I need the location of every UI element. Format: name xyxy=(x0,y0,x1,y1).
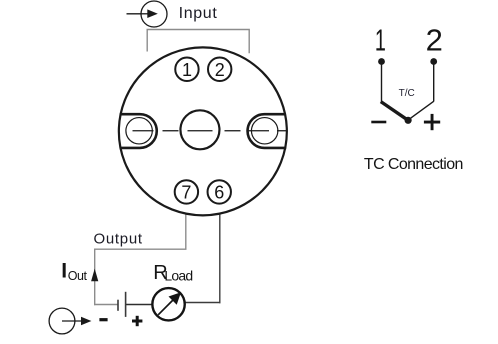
battery B1 tall plate (positive) xyxy=(125,292,127,317)
battery B1 short plate (negative) xyxy=(117,300,119,311)
svg-text:6: 6 xyxy=(214,182,224,202)
current flow arrowhead (IOut) xyxy=(91,269,98,282)
battery plus sign xyxy=(132,320,142,323)
TC wire left vertical xyxy=(381,62,383,103)
current source CS2 arrow xyxy=(62,320,84,322)
wire input bracket xyxy=(147,30,249,54)
svg-text:2: 2 xyxy=(426,23,443,58)
svg-text:Input: Input xyxy=(179,5,218,22)
left slot outline xyxy=(120,114,157,148)
svg-text:Output: Output xyxy=(94,230,143,247)
svg-text:Load: Load xyxy=(164,268,192,284)
wire meter to pin6 xyxy=(184,302,220,304)
meter needle xyxy=(158,299,174,315)
svg-text:Out: Out xyxy=(68,269,88,283)
svg-text:1: 1 xyxy=(182,60,192,80)
wire battery to meter xyxy=(126,304,153,306)
TC junction dot xyxy=(405,117,412,124)
current source CS1 arrowhead xyxy=(147,9,158,18)
current source arrow lead (input) xyxy=(127,13,151,15)
socket body circle xyxy=(119,47,287,215)
svg-text:I: I xyxy=(61,259,67,282)
svg-text:7: 7 xyxy=(181,182,191,202)
center keyway circle xyxy=(180,110,219,149)
svg-text:2: 2 xyxy=(215,60,225,80)
TC minus sign xyxy=(371,121,386,124)
TC wire right vertical xyxy=(433,62,435,102)
svg-text:TC Connection: TC Connection xyxy=(364,156,463,173)
pin 7 xyxy=(175,180,198,203)
TC thermocouple leg thick xyxy=(381,102,408,121)
left slot pin hole xyxy=(126,118,152,144)
wire battery left xyxy=(94,304,118,306)
current source CS1 (input) xyxy=(141,1,167,27)
svg-text:T/C: T/C xyxy=(399,88,415,99)
battery minus sign xyxy=(99,318,107,321)
current source CS2 (bottom left) xyxy=(49,308,75,334)
TC terminal dot 1 xyxy=(378,58,385,65)
right slot outline xyxy=(248,114,287,148)
TC terminal dot 2 xyxy=(430,58,437,65)
TC plus sign xyxy=(424,121,440,124)
TC thermocouple leg thin xyxy=(409,101,434,119)
wire output vertical down xyxy=(94,249,96,306)
pin 1 xyxy=(175,58,198,81)
wire pin7 to output corner xyxy=(185,202,187,249)
wire output horizontal xyxy=(94,248,187,250)
wire pin6 vertical xyxy=(219,202,221,303)
center keyway line xyxy=(188,130,213,132)
meter RLoad circle xyxy=(152,288,184,320)
keyway dash line xyxy=(133,130,287,132)
pin 2 xyxy=(208,58,231,81)
right slot pin hole xyxy=(251,118,277,144)
pin 6 xyxy=(208,180,231,203)
svg-text:1: 1 xyxy=(375,23,386,58)
